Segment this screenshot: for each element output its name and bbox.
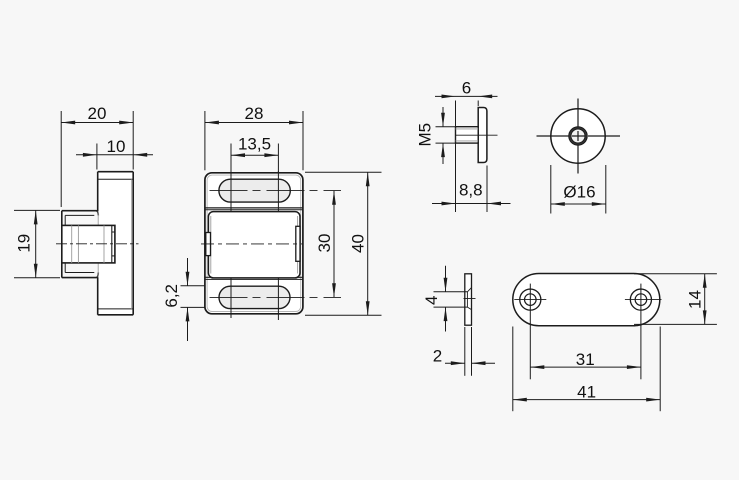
front view left clip tab [206, 233, 211, 256]
side view mounting plate outline [98, 172, 134, 315]
svg-text:M5: M5 [416, 123, 435, 147]
screw head outline [478, 108, 487, 163]
disc threaded hole [569, 127, 587, 145]
disc outer circle [551, 109, 605, 163]
dimension 13,5 (slot width, front view) [231, 135, 278, 173]
counter plate side view with countersink [434, 274, 476, 325]
side view centerline [56, 243, 139, 245]
front view middle body [208, 212, 300, 278]
svg-text:30: 30 [315, 234, 334, 253]
dimension 8,8 (overall screw length) [432, 166, 511, 213]
svg-text:14: 14 [686, 290, 705, 309]
svg-text:40: 40 [349, 234, 368, 253]
svg-text:4: 4 [422, 296, 441, 305]
dimension 41 (plate length) [513, 327, 660, 412]
svg-text:13,5: 13,5 [238, 135, 271, 154]
svg-text:2: 2 [433, 347, 442, 366]
dimension 20 (overall width, side view) [61, 104, 133, 207]
front view outer housing outline [205, 173, 303, 314]
svg-text:6,2: 6,2 [162, 284, 181, 308]
front view bottom catch slot [219, 286, 290, 308]
svg-text:41: 41 [577, 383, 596, 402]
top slot centerline / 30 extension [210, 190, 342, 192]
svg-text:31: 31 [576, 350, 595, 369]
svg-text:8,8: 8,8 [459, 181, 483, 200]
dimension M5 (thread) [416, 107, 457, 164]
dimension 14 (plate width) [634, 274, 717, 325]
dimension 10 (plate thickness, side view) [76, 137, 153, 170]
hole centerlines / extension lines 31 [530, 284, 641, 380]
bottom slot centerline / 30 extension [210, 296, 342, 298]
svg-text:6: 6 [462, 79, 471, 98]
screw centerline [455, 134, 498, 136]
screw shank with thread [456, 127, 479, 143]
dimension 40 (overall height) [305, 172, 382, 315]
svg-text:Ø16: Ø16 [563, 183, 595, 202]
dimension 28 (overall width, front view) [205, 104, 303, 170]
dimension 19 (housing height, side view) [14, 210, 60, 277]
dimension 4 (hole diameter) [422, 266, 447, 332]
dimension diameter 16 [551, 165, 606, 214]
side view magnet housing [62, 211, 115, 278]
svg-text:10: 10 [107, 137, 126, 156]
extension lines crossing front view [231, 171, 278, 320]
counter plate outline [513, 274, 660, 326]
svg-text:19: 19 [15, 234, 34, 253]
dimension 2 (plate thickness) [433, 327, 495, 376]
front view horizontal centerline [201, 243, 304, 245]
front view band boundary edges [205, 208, 303, 280]
dimension 30 (slot spacing) [315, 191, 336, 297]
counter plate right countersunk hole [625, 289, 662, 310]
front view right clip tab [296, 226, 300, 261]
disc centerline crosshair [537, 99, 621, 174]
dimension 6,2 (slot height) [162, 258, 205, 341]
dimension 31 (hole spacing) [530, 350, 641, 369]
dimension 6 (shank length) [435, 79, 498, 213]
counter plate left countersunk hole [514, 289, 546, 310]
svg-text:20: 20 [88, 104, 107, 123]
svg-text:28: 28 [245, 104, 264, 123]
front view top catch slot [219, 179, 290, 202]
